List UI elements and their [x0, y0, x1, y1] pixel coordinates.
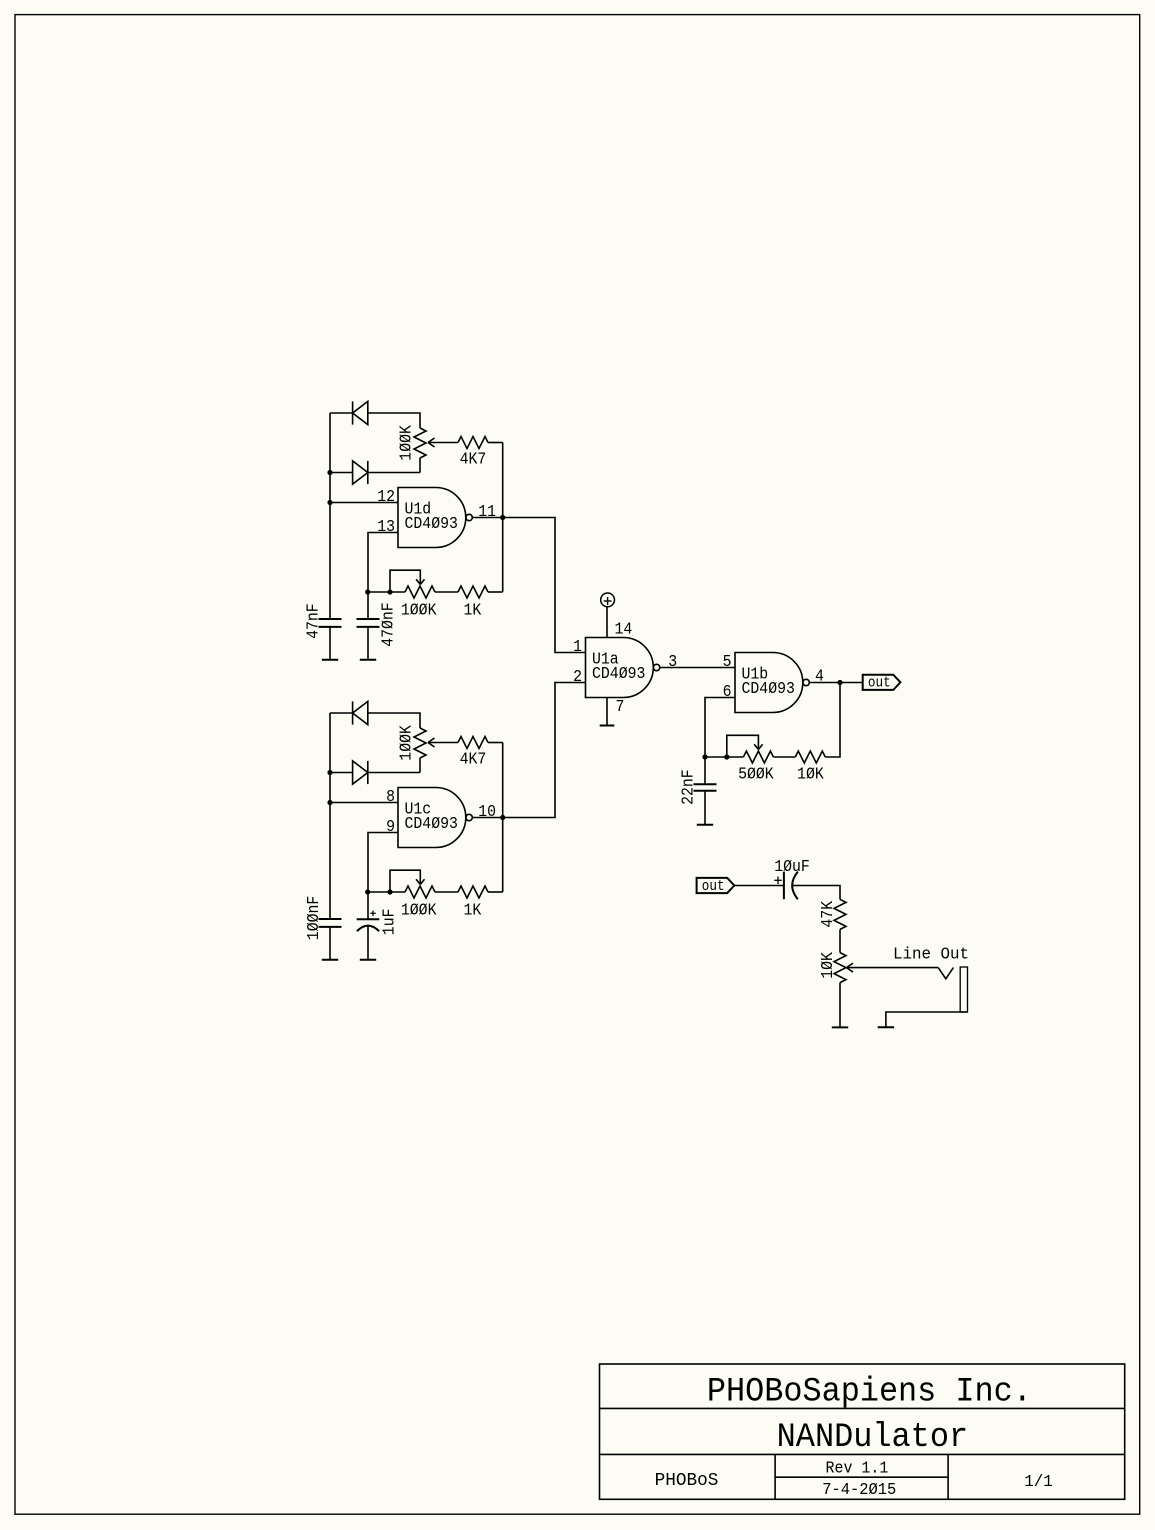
- svg-text:1ØØK: 1ØØK: [401, 601, 437, 620]
- wire: diode to pot top corner: [368, 413, 420, 428]
- wire: left vertical rail (U1c block): [329, 713, 331, 919]
- svg-text:1ØØK: 1ØØK: [397, 425, 416, 461]
- wire: C1 lower lead: [329, 627, 331, 660]
- svg-text:CD4Ø93: CD4Ø93: [592, 664, 645, 683]
- wire: U1a out to U1b pin 5: [660, 667, 735, 669]
- ground (C1): [322, 659, 338, 661]
- resistor 4K7: [458, 737, 488, 749]
- potentiometer 100K (vertical, U1d block): [414, 428, 426, 458]
- wire: pot to 1K: [435, 891, 458, 893]
- wire: diode to pot bottom corner: [368, 472, 420, 474]
- node: junction on left rail (pin 12 row): [327, 500, 332, 505]
- svg-text:1/1: 1/1: [1024, 1472, 1053, 1491]
- svg-text:1K: 1K: [464, 601, 482, 620]
- svg-text:4K7: 4K7: [460, 750, 487, 769]
- svg-text:PHOBoSapiens Inc.: PHOBoSapiens Inc.: [707, 1373, 1032, 1412]
- wire: pin 8 input: [330, 802, 398, 804]
- svg-text:Line Out: Line Out: [893, 945, 969, 964]
- ground (C2): [360, 659, 376, 661]
- wire: 10uF to 47K corner: [792, 886, 840, 900]
- svg-text:1ØØnF: 1ØØnF: [304, 896, 323, 941]
- wire: pot wiper to jack tip with arrow: [847, 967, 939, 969]
- wire: U1c output to junction: [472, 817, 502, 819]
- potentiometer 10K (volume): [834, 953, 846, 983]
- potentiometer 100K (vertical, U1c block): [414, 728, 426, 758]
- wire: feedback left segment: [368, 591, 405, 593]
- NAND gate U1d: [398, 488, 466, 548]
- wire: feedback left segment (U1b): [705, 756, 743, 758]
- wire: diode to pot bottom corner: [368, 772, 420, 774]
- svg-text:5: 5: [723, 652, 732, 671]
- node: 22nF junction: [702, 754, 707, 759]
- node: bypass junction: [387, 889, 392, 894]
- wire: 1K to right rail: [488, 891, 503, 893]
- svg-text:CD4Ø93: CD4Ø93: [742, 679, 795, 698]
- wire: U1b output to out tag: [809, 682, 862, 684]
- resistor 10K (feedback): [795, 751, 825, 763]
- resistor 1K (U1d block): [458, 586, 488, 598]
- node: feedback junction (cap tap): [365, 589, 370, 594]
- ground (C4): [360, 959, 376, 961]
- capacitor C2 470nF: [357, 618, 380, 620]
- wire: 470nF top lead: [367, 592, 369, 619]
- jack sleeve (rectangle): [960, 967, 967, 1012]
- node: feedback junction (cap tap): [365, 889, 370, 894]
- wire: 500K bypass loop with wiper arrow: [727, 735, 759, 757]
- wire: diode to pot top corner: [368, 713, 420, 728]
- svg-text:CD4Ø93: CD4Ø93: [405, 514, 458, 533]
- title block column divider 2: [947, 1454, 949, 1499]
- svg-text:1ØØK: 1ØØK: [401, 901, 437, 920]
- wire: pin 6 input: [705, 698, 735, 758]
- resistor 1K (U1c block): [458, 886, 488, 898]
- resistor 47K: [834, 899, 846, 929]
- svg-text:out: out: [702, 879, 725, 895]
- title block column divider 1: [774, 1454, 776, 1499]
- plus mark (C6 polarity): [774, 879, 781, 881]
- wire: 47K to 10K pot: [839, 929, 841, 952]
- wire: 22nF top lead: [704, 757, 706, 784]
- capacitor C6 10uF (polarized): [783, 872, 785, 900]
- power symbol V+: [601, 593, 615, 607]
- wire: U1c out to U1a pin 2: [503, 683, 586, 818]
- node: junction on left rail (diode row): [327, 770, 332, 775]
- potentiometer 500K: [743, 751, 773, 763]
- wire: C4 lower lead: [367, 926, 369, 960]
- wire: top segment to diode: [330, 712, 353, 714]
- potentiometer 100K (feedback, U1d block): [405, 586, 435, 598]
- svg-text:NANDulator: NANDulator: [777, 1418, 969, 1457]
- wire: out tag to 10uF: [734, 885, 784, 887]
- NAND gate U1b: [735, 653, 803, 713]
- capacitor C1 47nF: [319, 618, 342, 620]
- plus mark (C4 polarity): [370, 912, 375, 914]
- wire: lower diode row left segment: [330, 472, 353, 474]
- ground (jack sleeve): [878, 1026, 894, 1028]
- svg-text:Rev 1.1: Rev 1.1: [826, 1459, 889, 1478]
- svg-text:5ØØK: 5ØØK: [738, 765, 774, 784]
- wire: C4 top lead: [367, 892, 369, 919]
- wire: pin 12 input: [330, 502, 398, 504]
- wire: feedback left segment: [368, 891, 405, 893]
- svg-text:12: 12: [377, 487, 395, 506]
- svg-text:1K: 1K: [464, 901, 482, 920]
- node: junction on left rail (diode row): [327, 470, 332, 475]
- capacitor C4 1uF (polarized): [357, 918, 380, 920]
- diode D1 (cathode left): [352, 401, 354, 424]
- diode D3 (cathode left): [352, 701, 354, 724]
- svg-text:13: 13: [377, 517, 395, 536]
- svg-text:4K7: 4K7: [460, 450, 487, 469]
- node: U1d output junction: [500, 515, 505, 520]
- wire: right vertical rail: [502, 443, 504, 593]
- wire: pot to 1K: [435, 591, 458, 593]
- svg-text:2: 2: [573, 667, 582, 686]
- wire: lower diode row left segment: [330, 772, 353, 774]
- net tag out (U1b output): [863, 675, 901, 690]
- svg-text:1: 1: [573, 637, 582, 656]
- wire: pot bottom leg: [419, 458, 421, 473]
- wire: 22nF lower lead: [704, 791, 706, 825]
- net tag out (source): [697, 878, 735, 893]
- node: junction on left rail (pin 8 row): [327, 800, 332, 805]
- NAND gate U1a: [586, 638, 654, 698]
- wire: top segment to diode: [330, 412, 353, 414]
- svg-text:47ØnF: 47ØnF: [378, 602, 397, 647]
- wire: 1K to right rail: [488, 591, 503, 593]
- svg-text:47nF: 47nF: [304, 603, 323, 639]
- wire: 100K pot wiper arrow: [428, 442, 458, 444]
- wire: left vertical rail (U1d block): [329, 413, 331, 619]
- ground (pin 7): [600, 725, 615, 727]
- diode D2 (anode left): [353, 461, 368, 484]
- svg-text:1ØK: 1ØK: [818, 952, 837, 979]
- wire: 100K pot wiper arrow: [428, 742, 458, 744]
- svg-text:1ØK: 1ØK: [797, 765, 824, 784]
- node: bypass junction: [387, 589, 392, 594]
- wire: U1d output to junction: [472, 517, 502, 519]
- ground (22nF): [697, 824, 713, 826]
- svg-text:9: 9: [386, 817, 395, 836]
- wire: pot bottom leg: [419, 758, 421, 773]
- wire: right vertical rail: [502, 743, 504, 893]
- wire: pot bypass loop with wiper arrow: [390, 570, 420, 592]
- capacitor C5 22nF: [694, 783, 717, 785]
- svg-text:7: 7: [616, 697, 625, 716]
- jack tip contact (V): [938, 968, 953, 979]
- wire: C3 lower lead: [329, 927, 331, 960]
- wire: pot bottom to ground: [839, 983, 841, 1028]
- potentiometer 100K (feedback, U1c block): [405, 886, 435, 898]
- svg-text:1ØØK: 1ØØK: [397, 725, 416, 761]
- wire: pot bypass loop with wiper arrow: [390, 870, 420, 892]
- svg-text:PHOBoS: PHOBoS: [655, 1471, 719, 1491]
- wire: pin 13 input: [368, 533, 398, 593]
- capacitor C3 100nF: [319, 918, 342, 920]
- svg-text:CD4Ø93: CD4Ø93: [405, 814, 458, 833]
- wire: jack sleeve to ground: [886, 1012, 968, 1027]
- node: U1b output junction: [837, 680, 842, 685]
- title block outer rectangle: [600, 1364, 1125, 1499]
- wire: U1d out to U1a pin 1: [503, 518, 586, 653]
- wire: C2 lower lead: [367, 627, 369, 660]
- wire: pin 9 input: [368, 833, 398, 893]
- ground (volume pot): [832, 1026, 848, 1028]
- title block row divider 1: [600, 1407, 1125, 1409]
- resistor 4K7: [458, 437, 488, 449]
- node: U1c output junction: [500, 815, 505, 820]
- ground (C3): [322, 959, 338, 961]
- NAND gate U1c: [398, 788, 466, 848]
- wire: 500K to 10K: [773, 756, 795, 758]
- diode D4 (anode left): [353, 761, 368, 784]
- title block row divider 2: [600, 1453, 1125, 1455]
- svg-text:7-4-2Ø15: 7-4-2Ø15: [822, 1480, 896, 1499]
- title block rev/date divider: [775, 1476, 948, 1478]
- svg-text:14: 14: [615, 620, 633, 639]
- svg-text:22nF: 22nF: [679, 769, 698, 805]
- svg-text:1uF: 1uF: [380, 909, 399, 936]
- wire: pin 7 to ground: [606, 698, 608, 726]
- svg-text:1ØuF: 1ØuF: [774, 857, 810, 876]
- wire: 10K up to output junction: [825, 683, 840, 758]
- svg-text:8: 8: [386, 787, 395, 806]
- svg-text:47K: 47K: [818, 901, 837, 928]
- wire: V+ to pin 14: [606, 607, 608, 638]
- node: 500K bypass junction: [724, 754, 729, 759]
- wire: 4K7 to right rail: [488, 742, 503, 744]
- wire: 4K7 to right rail: [488, 442, 503, 444]
- svg-text:out: out: [868, 676, 891, 692]
